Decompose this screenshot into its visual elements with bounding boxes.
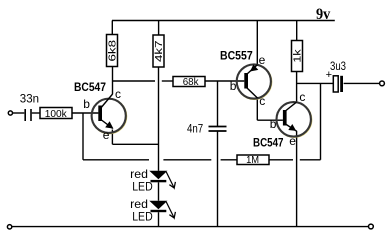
- svg-text:100k: 100k: [45, 108, 68, 120]
- svg-text:1k: 1k: [292, 48, 304, 62]
- svg-text:4n7: 4n7: [187, 121, 203, 135]
- svg-text:e: e: [103, 128, 110, 142]
- svg-text:BC557: BC557: [220, 49, 253, 63]
- svg-text:e: e: [289, 134, 296, 148]
- svg-text:3u3: 3u3: [330, 61, 346, 73]
- svg-text:b: b: [230, 79, 237, 93]
- svg-text:33n: 33n: [20, 94, 39, 106]
- svg-text:LED: LED: [132, 180, 153, 194]
- svg-text:c: c: [259, 94, 265, 108]
- svg-text:c: c: [115, 87, 121, 101]
- svg-text:+: +: [326, 69, 332, 81]
- svg-text:68k: 68k: [183, 76, 199, 88]
- svg-text:6k8: 6k8: [107, 40, 119, 62]
- svg-text:b: b: [83, 97, 90, 111]
- svg-text:e: e: [259, 53, 266, 67]
- svg-text:BC547: BC547: [74, 80, 106, 94]
- svg-text:9v: 9v: [316, 4, 331, 23]
- svg-text:b: b: [270, 117, 277, 131]
- svg-text:BC547: BC547: [253, 135, 284, 149]
- svg-text:4k7: 4k7: [153, 40, 165, 62]
- svg-text:c: c: [299, 90, 305, 104]
- svg-text:LED: LED: [132, 210, 153, 224]
- svg-text:1M: 1M: [246, 154, 259, 166]
